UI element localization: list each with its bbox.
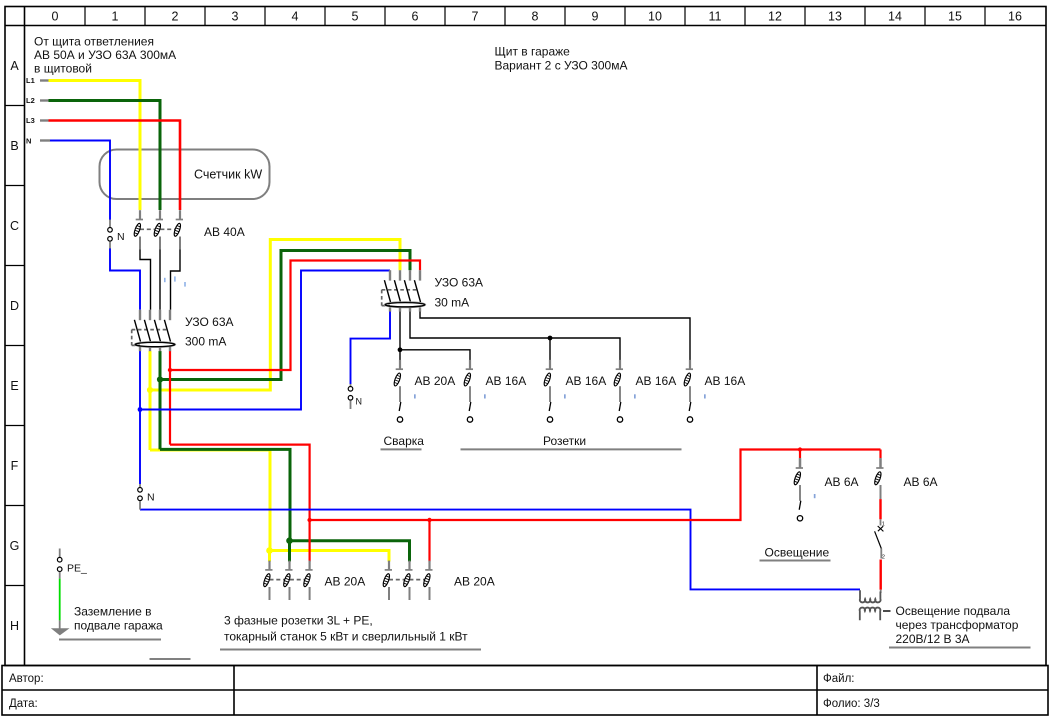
breaker QF1 AB 40A 3-pole: [133, 210, 183, 249]
svg-text:8: 8: [532, 10, 539, 24]
breaker QF3 AB 16A: [463, 360, 486, 422]
wire L3 red branch to RCD2 pole4: [170, 261, 420, 371]
svg-text:Сварка: Сварка: [384, 434, 425, 448]
label leader dash: [883, 610, 891, 612]
svg-text:АВ 50А и УЗО 63А 300мА: АВ 50А и УЗО 63А 300мА: [34, 48, 176, 62]
svg-text:220В/12 В 3А: 220В/12 В 3А: [896, 632, 970, 646]
svg-text:Дата:: Дата:: [9, 698, 38, 710]
wire grey into transformer: [880, 590, 882, 593]
PE earth electrode: [52, 549, 87, 635]
svg-text:3 фазные розетки 3L + PE,: 3 фазные розетки 3L + PE,: [224, 614, 373, 628]
wire AB40A out pole1 black: [140, 249, 151, 310]
svg-text:PE_: PE_: [67, 563, 87, 575]
N disconnect bottom left: [138, 484, 155, 510]
wire L1 lead-in grey: [40, 79, 49, 81]
svg-text:0: 0: [52, 10, 59, 24]
breaker QF7 AB 20A 3-pole sockets group1: [262, 561, 312, 600]
svg-text:A: A: [10, 59, 19, 73]
wire red drop AB6A-1: [799, 450, 801, 459]
note: feed source text: [34, 35, 176, 76]
breaker QF8 AB 20A 3-pole sockets group2: [382, 561, 433, 600]
wire RCD2 pole2 down black: [399, 311, 401, 361]
svg-text:13: 13: [828, 10, 842, 24]
svg-text:Розетки: Розетки: [543, 434, 586, 448]
svg-text:L1: L1: [26, 76, 35, 85]
RCD U3 УЗО 63А 30mA 4-pole: [382, 270, 426, 311]
wire N blue RCD2 pole1 to N terminal: [351, 311, 391, 384]
wire N blue to N-link: [50, 141, 110, 221]
switch S1 basement: [875, 519, 885, 560]
breaker QF4 AB 16A: [543, 360, 566, 422]
svg-text:D: D: [10, 299, 19, 313]
breaker QF2 AB 20A: [393, 360, 416, 422]
wire L2 green drop group1 pole2: [288, 541, 291, 562]
svg-text:H: H: [10, 619, 19, 633]
transformer T1 220V/12V: [860, 590, 881, 620]
wire L2 green RCD1 output down: [159, 351, 162, 449]
wire N lead-in grey: [40, 139, 50, 141]
wire RCD2 pole4 feed bus b5 black: [420, 311, 690, 361]
svg-text:11: 11: [709, 10, 722, 24]
svg-text:УЗО 63А: УЗО 63А: [185, 315, 234, 329]
wire L1 yellow RCD1 output down: [149, 351, 152, 450]
svg-text:через трансформатор: через трансформатор: [896, 618, 1019, 632]
svg-text:N: N: [147, 492, 155, 504]
wire L3 red to AB40A: [49, 121, 181, 211]
wire N blue below N-link to RCD1 pole1: [110, 248, 140, 310]
svg-text:5: 5: [352, 10, 359, 24]
wire L3 lead-in grey: [40, 119, 49, 121]
svg-text:Фолио: 3/3: Фолио: 3/3: [823, 698, 880, 710]
svg-text:12: 12: [768, 10, 782, 24]
svg-text:Вариант 2 с УЗО 300мА: Вариант 2 с УЗО 300мА: [495, 58, 628, 72]
wire L1 yellow drop group1 pole1: [268, 551, 271, 562]
column header ticks: [85, 7, 985, 26]
svg-text:токарный станок 5 кВт и сверли: токарный станок 5 кВт и сверлильный 1 кВ…: [224, 630, 468, 644]
row letters: [10, 59, 20, 633]
underline rules: [59, 449, 1031, 659]
svg-text:E: E: [10, 379, 18, 393]
svg-text:УЗО 63А: УЗО 63А: [435, 276, 484, 290]
row header ticks: [5, 106, 25, 586]
svg-text:АВ 16А: АВ 16А: [566, 374, 607, 388]
wire N blue bus to transformer: [140, 510, 860, 590]
svg-text:АВ 40А: АВ 40А: [204, 225, 245, 239]
svg-text:АВ 16А: АВ 16А: [636, 374, 677, 388]
svg-text:L3: L3: [26, 116, 35, 125]
wire red switch to transformer: [880, 560, 882, 590]
column numbers: [52, 10, 1022, 24]
wire AB40A out pole3 black: [171, 249, 181, 310]
wire L3 red to socket group1 pole3: [170, 445, 310, 562]
svg-text:10: 10: [648, 10, 662, 24]
svg-text:АВ 20А: АВ 20А: [415, 374, 456, 388]
svg-text:3: 3: [232, 10, 239, 24]
svg-text:2: 2: [882, 555, 885, 561]
pin marks: [164, 276, 186, 286]
svg-text:АВ 20А: АВ 20А: [325, 575, 366, 589]
svg-text:C: C: [10, 219, 19, 233]
wire N blue RCD1 output down: [139, 351, 141, 484]
svg-text:N: N: [356, 397, 363, 407]
svg-text:АВ 16А: АВ 16А: [705, 374, 746, 388]
junction dots: [138, 336, 803, 554]
wire drop b3 black: [549, 338, 551, 361]
wire RCD2 pole3 feed bus b3 b4 black: [410, 311, 620, 361]
note: sheet title text: [495, 45, 628, 73]
svg-text:L2: L2: [26, 96, 35, 105]
svg-text:B: B: [10, 139, 18, 153]
wire red QF10 to switch: [879, 499, 881, 519]
wire L2 green to socket breakers: [160, 449, 410, 561]
svg-text:6: 6: [412, 10, 419, 24]
svg-text:Заземление в: Заземление в: [74, 605, 151, 619]
svg-text:9: 9: [592, 10, 599, 24]
svg-text:АВ 20А: АВ 20А: [454, 575, 495, 589]
svg-text:Счетчик kW: Счетчик kW: [194, 168, 262, 182]
wire N blue branch to RCD2 pole1: [140, 271, 390, 410]
N terminal row E: [348, 384, 362, 409]
svg-text:N: N: [26, 137, 31, 146]
wire L2 green to AB40A: [49, 101, 161, 211]
svg-text:30 mA: 30 mA: [435, 296, 470, 310]
svg-text:300 mA: 300 mA: [185, 335, 226, 349]
svg-text:Автор:: Автор:: [9, 673, 44, 685]
wire AB40A out pole2 black: [159, 249, 161, 310]
breaker QF9 AB 6A lighting: [793, 458, 816, 521]
svg-text:АВ 16А: АВ 16А: [486, 374, 527, 388]
wire L2 lead-in grey: [40, 99, 49, 101]
svg-text:Щит в гараже: Щит в гараже: [495, 45, 571, 59]
breaker QF5 AB 16A: [613, 360, 636, 422]
svg-text:1: 1: [112, 10, 119, 24]
wire L3 red bus to lighting: [310, 450, 881, 521]
wire L3 red RCD1 output down: [169, 351, 171, 445]
title block table: [2, 666, 1048, 716]
wire red drop AB6A-2: [879, 450, 881, 459]
svg-text:в щитовой: в щитовой: [34, 62, 92, 76]
breaker QF6 AB 16A: [683, 360, 706, 422]
svg-text:Освещение подвала: Освещение подвала: [896, 604, 1011, 618]
meter U1 Счетчик kW: [100, 150, 270, 200]
svg-text:N: N: [117, 231, 125, 243]
wire L2 green branch to RCD2 pole3: [160, 251, 410, 380]
wire L1 yellow branch to RCD2 pole2: [150, 240, 400, 391]
svg-text:F: F: [11, 459, 19, 473]
svg-text:2: 2: [172, 10, 179, 24]
svg-text:Файл:: Файл:: [823, 673, 854, 685]
svg-text:От щита ответлениея: От щита ответлениея: [34, 35, 154, 49]
wire L1 yellow to socket breakers: [150, 450, 389, 562]
breaker QF10 AB 6A basement lighting: [873, 458, 883, 499]
svg-text:4: 4: [292, 10, 299, 24]
svg-text:подвале гаража: подвале гаража: [74, 619, 163, 633]
svg-text:7: 7: [472, 10, 479, 24]
svg-text:16: 16: [1008, 10, 1022, 24]
N disconnect link at meter: [108, 220, 125, 249]
svg-text:15: 15: [948, 10, 962, 24]
wire L3 red drop group2 pole3: [428, 520, 430, 562]
wire L1 yellow to AB40A: [49, 81, 141, 211]
svg-text:G: G: [10, 539, 20, 553]
svg-text:АВ 6А: АВ 6А: [904, 475, 938, 489]
svg-text:АВ 6А: АВ 6А: [825, 475, 859, 489]
RCD U2 УЗО 63А 300mA 4-pole: [132, 310, 176, 351]
svg-text:14: 14: [888, 10, 902, 24]
svg-text:Освещение: Освещение: [765, 546, 830, 560]
wire feed bus b2 black: [400, 350, 470, 361]
